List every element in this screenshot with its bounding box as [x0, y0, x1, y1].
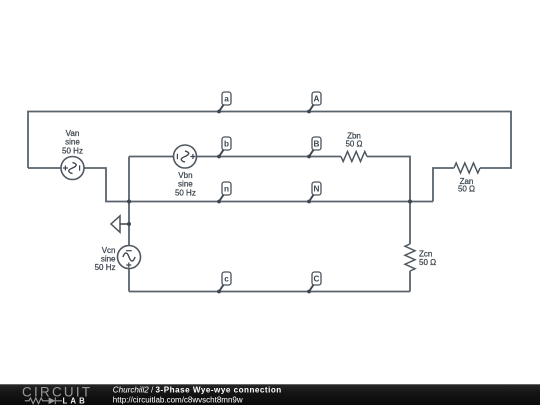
svg-text:Churchill2 / 3-Phase Wye-wye c: Churchill2 / 3-Phase Wye-wye connection [113, 386, 282, 395]
svg-text:50 Ω: 50 Ω [458, 185, 475, 194]
svg-text:n: n [224, 184, 229, 193]
svg-text:B: B [314, 139, 320, 148]
svg-text:C: C [314, 274, 320, 283]
svg-text:A: A [314, 94, 320, 103]
svg-text:Zcn: Zcn [419, 250, 432, 259]
svg-text:Van: Van [66, 129, 80, 138]
svg-text:50 Ω: 50 Ω [345, 140, 362, 149]
svg-text:http://circuitlab.com/c8wvscht: http://circuitlab.com/c8wvscht8mn9w [113, 395, 243, 404]
svg-text:LAB: LAB [63, 396, 88, 405]
svg-text:50 Ω: 50 Ω [419, 258, 436, 267]
svg-text:a: a [224, 94, 229, 103]
svg-text:c: c [224, 274, 229, 283]
svg-text:50 Hz: 50 Hz [62, 146, 83, 155]
svg-text:Vbn: Vbn [178, 171, 192, 180]
svg-text:50 Hz: 50 Hz [95, 263, 116, 272]
svg-text:N: N [314, 184, 320, 193]
svg-text:50 Hz: 50 Hz [175, 188, 196, 197]
svg-text:sine: sine [178, 180, 193, 189]
svg-text:b: b [224, 139, 229, 148]
